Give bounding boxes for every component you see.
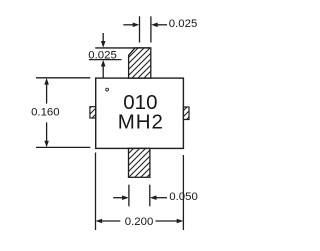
dimension 0.050: right arrow pointing left xyxy=(150,195,167,200)
top terminal pad (hatched, chamfered top-left) xyxy=(129,48,151,78)
dimension 0.050: left extension line xyxy=(128,185,130,207)
dimension 0.160: dimension line with arrows xyxy=(44,78,49,147)
dimension 0.160: bottom extension line xyxy=(36,146,90,148)
dimension 0.200: left extension line xyxy=(95,153,97,231)
dimension 0.160: top extension line xyxy=(36,77,90,79)
svg-text:0.160: 0.160 xyxy=(31,107,60,119)
bottom terminal pad (hatched) xyxy=(129,148,150,177)
dimension 0.025 (top): left arrow pointing right xyxy=(123,23,139,28)
dimension 0.025 (top): right arrow pointing left xyxy=(151,23,167,28)
dimension 0.200: value label xyxy=(125,216,154,228)
dimension 0.025 (left): value label xyxy=(88,50,117,62)
package body outline xyxy=(96,78,184,148)
dimension 0.200: right extension line xyxy=(182,155,184,230)
dimension 0.200: dimension line with outward arrows xyxy=(96,219,184,224)
marking text MH2 xyxy=(118,111,164,134)
dimension 0.025 (left): up arrow xyxy=(101,60,106,78)
left side tab (hatched) xyxy=(90,107,96,118)
pin 1 indicator dot xyxy=(106,88,109,91)
dimension 0.025 (top): value label xyxy=(169,18,198,30)
right side tab (hatched) xyxy=(183,107,189,120)
dimension 0.025 (top): right extension line xyxy=(150,16,152,42)
dimension 0.050: value label xyxy=(169,191,198,203)
dimension 0.025 (left): down arrow xyxy=(101,33,106,48)
dimension 0.025 (left, pad offset): top reference line xyxy=(95,47,151,49)
dimension 0.050: left arrow pointing right xyxy=(113,195,129,200)
svg-text:MH2: MH2 xyxy=(118,111,164,134)
dimension 0.025 (top): left extension line xyxy=(139,16,141,42)
marking text 010 xyxy=(123,91,157,114)
dimension 0.025 (left): bottom reference line xyxy=(89,59,122,61)
svg-text:0.200: 0.200 xyxy=(125,216,154,228)
svg-text:0.025: 0.025 xyxy=(169,18,198,30)
dimension 0.050: right extension line xyxy=(149,185,151,207)
dimension 0.160: value label xyxy=(31,107,60,119)
